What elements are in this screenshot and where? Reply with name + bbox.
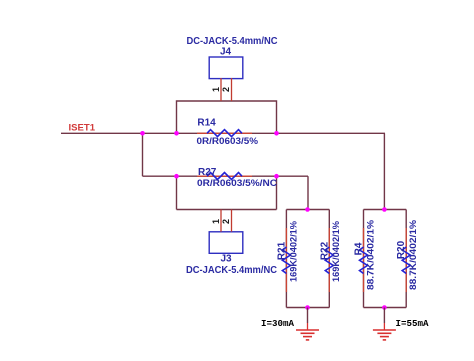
svg-text:88.7K/0402/1%: 88.7K/0402/1% [408,220,418,290]
wire branch down to R27 row [142,133,144,176]
pin 1 of J3 [211,210,221,232]
svg-text:ISET1: ISET1 [69,123,96,134]
svg-text:0R/R0603/5%: 0R/R0603/5% [197,136,259,147]
wire R27 row horizontal [143,175,309,177]
svg-text:R27: R27 [198,167,217,178]
svg-text:1: 1 [211,219,221,224]
junction dot left group bottom [305,305,310,310]
svg-text:J4: J4 [220,47,232,58]
svg-text:169K/0402/1%: 169K/0402/1% [331,221,341,282]
connector J3 DC jack [186,232,277,276]
svg-text:88.7K/0402/1%: 88.7K/0402/1% [365,220,375,290]
ground symbol left [296,308,319,340]
svg-text:R14: R14 [197,118,216,129]
junction dot ISET1/J4 left [174,131,179,136]
wire J4 loop [177,101,277,133]
pin 1 of J4 [211,78,221,101]
wire J3 loop horizontal [177,209,277,211]
wire right feed vertical to right group [383,133,385,209]
ground symbol right [373,308,396,340]
wire R27 row corner down to left group [307,176,309,209]
svg-text:DC-JACK-5.4mm/NC: DC-JACK-5.4mm/NC [187,36,278,47]
resistor R21 169K/0402/1% [276,210,298,308]
svg-text:2: 2 [221,219,231,224]
wire right group top [364,209,407,211]
svg-text:J3: J3 [220,254,232,265]
wire right group bottom [364,307,407,309]
svg-text:R20: R20 [396,240,407,259]
svg-text:DC-JACK-5.4mm/NC: DC-JACK-5.4mm/NC [186,265,277,276]
wire left group bottom [286,307,329,309]
junction dot right group bottom [382,305,387,310]
resistor R14 0R/R0603/5% [197,118,259,148]
pin 2 of J4 [221,78,231,101]
wire J3 loop left vertical [176,176,178,209]
current label I=55mA [396,319,430,329]
svg-text:R22: R22 [319,241,330,260]
junction dot left group top [305,207,310,212]
resistor R27 0R/R0603/5%/NC [197,167,277,189]
junction dot R27 row / J3 left [174,174,179,179]
svg-text:I=30mA: I=30mA [261,319,295,329]
junction dot ISET1/J4 right [274,131,279,136]
current label I=30mA [261,319,295,329]
resistor R4 88.7K/0402/1% [354,210,376,308]
junction dot ISET1/branch [140,131,145,136]
svg-text:169K/0402/1%: 169K/0402/1% [288,221,298,282]
wire ISET1 horizontal main [61,132,385,134]
svg-text:2: 2 [221,87,231,92]
pin 2 of J3 [221,210,231,232]
svg-text:I=55mA: I=55mA [396,319,430,329]
wire J3 loop right vertical [276,176,278,209]
junction dot R27 row / J3 right [274,174,279,179]
wire left group top [286,209,329,211]
svg-text:0R/R0603/5%/NC: 0R/R0603/5%/NC [197,178,277,189]
resistor R20 88.7K/0402/1% [396,210,418,308]
resistor R22 169K/0402/1% [319,210,341,308]
svg-text:1: 1 [211,87,221,92]
connector J4 DC jack [187,36,278,79]
junction dot right group top [382,207,387,212]
svg-text:R21: R21 [276,241,287,260]
svg-text:R4: R4 [354,242,365,255]
net ISET1 label [69,123,96,134]
